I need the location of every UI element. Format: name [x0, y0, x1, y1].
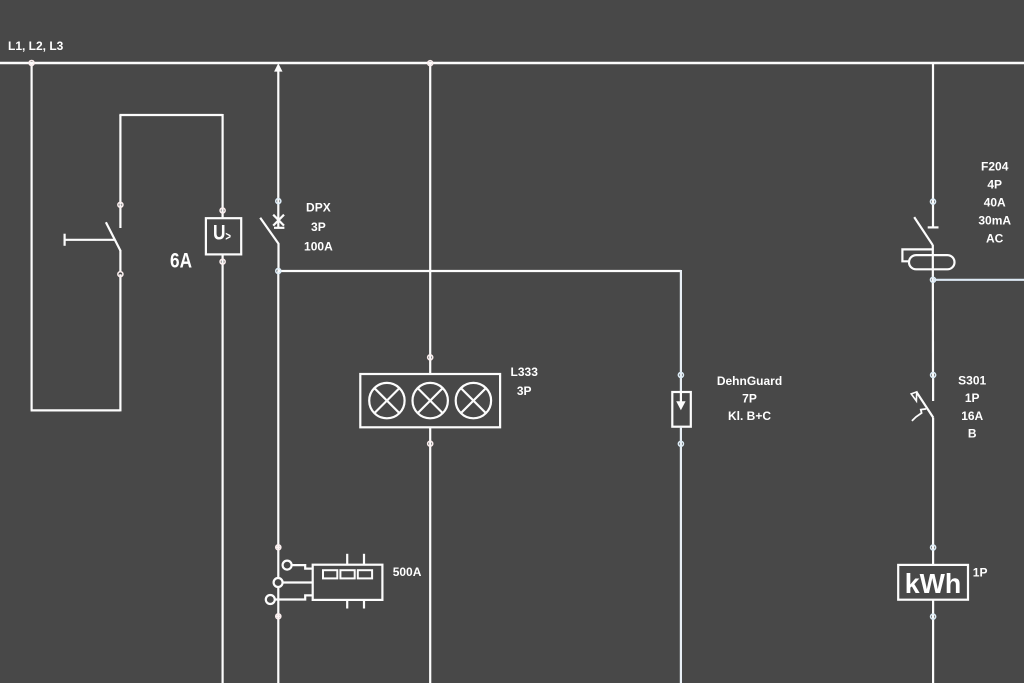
- svg-text:B: B: [968, 427, 977, 441]
- svg-text:L1, L2, L3: L1, L2, L3: [8, 39, 64, 53]
- svg-text:40A: 40A: [984, 195, 1006, 209]
- svg-text:U: U: [213, 222, 226, 245]
- svg-text:Kl. B+C: Kl. B+C: [728, 409, 771, 423]
- svg-text:>: >: [225, 229, 231, 244]
- svg-text:7P: 7P: [742, 392, 757, 406]
- svg-text:16A: 16A: [961, 409, 983, 423]
- svg-text:AC: AC: [986, 231, 1004, 245]
- svg-text:S301: S301: [958, 374, 986, 388]
- svg-text:DPX: DPX: [306, 200, 331, 214]
- svg-text:kWh: kWh: [905, 568, 962, 599]
- svg-text:30mA: 30mA: [978, 213, 1011, 227]
- svg-text:L333: L333: [511, 365, 539, 379]
- svg-text:3P: 3P: [517, 384, 532, 398]
- svg-text:1P: 1P: [973, 565, 988, 579]
- svg-text:500A: 500A: [393, 565, 422, 579]
- svg-text:6A: 6A: [170, 250, 192, 273]
- svg-text:3P: 3P: [311, 220, 326, 234]
- svg-text:4P: 4P: [987, 177, 1002, 191]
- svg-text:F204: F204: [981, 159, 1009, 173]
- svg-text:1P: 1P: [965, 391, 980, 405]
- svg-text:100A: 100A: [304, 240, 333, 254]
- svg-text:DehnGuard: DehnGuard: [717, 374, 782, 388]
